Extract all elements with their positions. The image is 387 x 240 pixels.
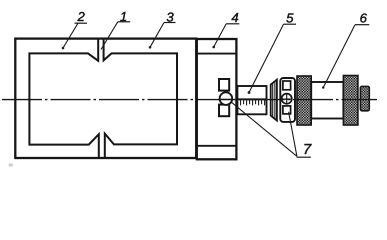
svg-text:4: 4 [231,10,238,25]
svg-text:7: 7 [303,141,312,158]
svg-text:2: 2 [77,9,86,24]
svg-text:5: 5 [286,10,294,25]
svg-text:1: 1 [120,9,127,24]
svg-text:3: 3 [166,9,174,24]
svg-text:6: 6 [360,10,368,25]
